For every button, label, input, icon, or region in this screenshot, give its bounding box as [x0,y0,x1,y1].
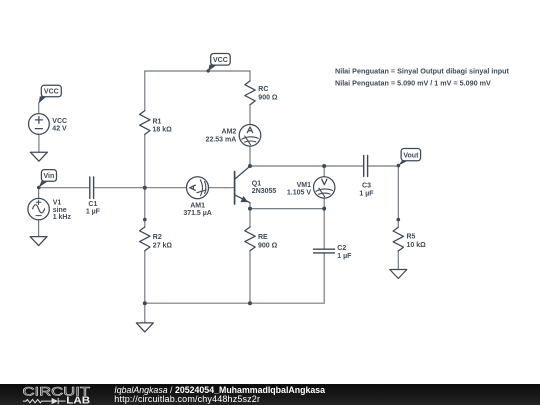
wire C2 top lead [323,209,325,250]
svg-text:C1: C1 [88,201,97,208]
svg-text:C3: C3 [362,182,371,189]
resistor R1 [140,111,150,135]
ground (R5) [390,270,407,279]
ammeter AM2 [239,125,261,147]
voltmeter VM1 [314,177,335,198]
node R2 wire joint [143,218,147,222]
wire AM1 to Q1 base bar [226,187,235,189]
node junction R1/R2 on Vin rail [143,186,147,190]
node VM1 top tap [322,164,326,168]
resistor RC [245,81,255,105]
wire RC top lead [249,71,251,81]
voltage source V1 sine [28,198,49,219]
node R5 wire joint [397,218,401,222]
capacitor C2 [314,249,335,253]
resistor R5 [393,227,403,251]
svg-text:VCC: VCC [44,89,59,96]
svg-text:LAB: LAB [66,395,90,405]
svg-text:1 µF: 1 µF [359,190,374,197]
wire AM2 bottom to collector node [249,146,251,166]
svg-text:V1: V1 [53,199,62,206]
wire R2 bottom lead [144,251,146,303]
capacitor C1 [90,177,94,199]
wire VM1 top stub [323,166,325,177]
resistor R2 [140,227,150,251]
wire VCC label stem (left source) [38,103,40,113]
svg-text:RC: RC [258,86,268,93]
svg-text:1 µF: 1 µF [337,253,352,260]
node label Vin [37,170,57,190]
wire emitter rail to VM1/C2 [250,208,324,210]
resistor RE [245,227,255,251]
svg-text:900 Ω: 900 Ω [258,243,278,250]
wire VCC source to ground [38,134,40,152]
svg-text:Vout: Vout [403,152,419,159]
annotation note text [335,67,510,88]
svg-text:AM1: AM1 [190,203,205,210]
wire C2 bottom to bottom rail [323,253,325,303]
ground (bottom rail) [136,323,153,332]
svg-text:1.105 V: 1.105 V [287,190,311,197]
svg-text:RE: RE [258,234,268,241]
wire R5 to ground [397,262,399,270]
transistor Q1 2N3055 [235,166,250,204]
svg-text:371.5 µA: 371.5 µA [183,210,212,217]
wire bottom rail [145,302,324,304]
wire C3 to Vout node [368,165,399,167]
svg-text:Nilai Penguatan = 5.090 mV / 1: Nilai Penguatan = 5.090 mV / 1 mV = 5.09… [335,78,491,87]
node RE bottom junction [248,301,252,305]
node bottom-left junction [143,301,147,305]
wire RC bottom to AM2 top [249,105,251,125]
node emitter rail / C2 junction [322,207,326,211]
wire R5 bottom lead [397,251,399,262]
CircuitLab logo resistor-diode strip [23,398,66,404]
wire V1 top stub [38,188,40,199]
svg-text:C2: C2 [337,245,346,252]
ground (VCC source) [30,152,47,161]
svg-text:R5: R5 [407,234,416,241]
svg-text:18 kΩ: 18 kΩ [153,127,173,134]
svg-text:Vin: Vin [44,173,55,180]
svg-text:22.53 mA: 22.53 mA [206,137,237,144]
ammeter AM1 [187,177,209,199]
wire Vin rail V1 to C1 [39,187,90,189]
wire ground stub bottom rail [144,303,146,323]
svg-text:Q1: Q1 [252,180,261,187]
wire R1 bottom lead to Vin rail [144,134,146,187]
wire VM1 bottom stub [323,198,325,209]
svg-text:10 kΩ: 10 kΩ [407,242,427,249]
wire collector rail to C3 [250,165,364,167]
wire RE top lead [249,209,251,227]
component value labels [52,86,426,260]
svg-text:VCC: VCC [213,57,228,64]
voltmeter VM1 letter V [322,179,327,185]
svg-text:27 kΩ: 27 kΩ [153,243,173,250]
svg-text:42 V: 42 V [52,125,67,132]
node label VCC (left source) [39,85,62,103]
ammeter AM2 letter A [247,127,252,133]
capacitor C3 [364,156,368,177]
svg-text:1 µF: 1 µF [86,209,101,216]
svg-text:sine: sine [53,207,67,214]
svg-text:VCC: VCC [52,118,67,125]
node label VCC (top rail) [207,54,231,73]
wire R2 top lead [144,188,146,227]
wire AM1 to Q1 base [208,187,226,189]
node emitter junction [248,207,252,211]
voltage source VCC 42V [29,114,50,135]
wire Vout node down to R5 [397,166,399,227]
svg-text:R1: R1 [153,118,162,125]
svg-text:2N3055: 2N3055 [252,188,277,195]
svg-text:1 kHz: 1 kHz [53,214,72,221]
svg-text:900 Ω: 900 Ω [258,95,278,102]
wire top rail VCC net [145,70,250,72]
svg-text:Nilai Penguatan = Sinyal Outpu: Nilai Penguatan = Sinyal Output dibagi s… [335,67,510,76]
svg-text:R2: R2 [153,234,162,241]
wire RE bottom lead [249,251,251,303]
wire V1 to ground [38,220,40,237]
node label Vout [397,149,421,168]
svg-text:VM1: VM1 [297,182,312,189]
wire R1 top lead [144,71,146,111]
svg-text:AM2: AM2 [222,128,237,135]
wire Q1 emitter stub [249,203,251,209]
wire C1 to AM1 [94,187,187,189]
node collector junction [248,164,252,168]
svg-text:http://circuitlab.com/chy448hz: http://circuitlab.com/chy448hz5sz2r [114,394,260,404]
ground (V1) [30,237,47,246]
